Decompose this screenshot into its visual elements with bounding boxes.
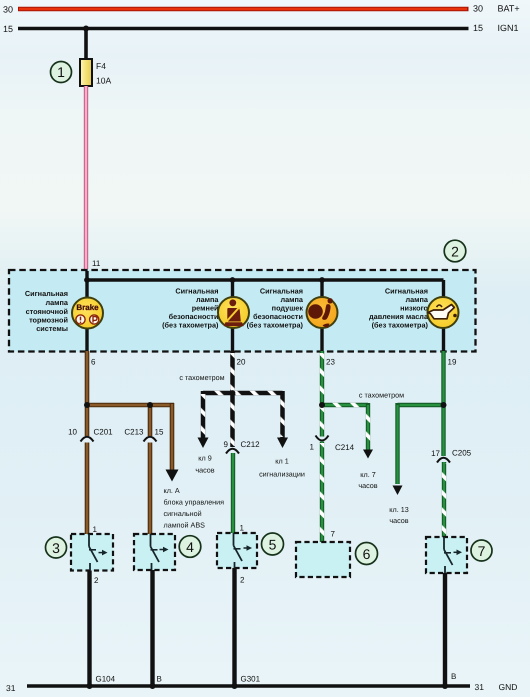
wire: switch 7 to ground rail xyxy=(443,573,447,686)
wire: striped stub to alarm terminal 1 xyxy=(280,391,285,438)
ground rail 31 xyxy=(27,684,470,688)
instrument cluster box (dashed) xyxy=(9,270,476,352)
svg-text:кл. 7: кл. 7 xyxy=(360,470,375,479)
label F4 10A xyxy=(96,61,111,86)
arrow to clock terminal 9 xyxy=(198,438,209,449)
svg-text:5: 5 xyxy=(269,537,277,553)
svg-text:17: 17 xyxy=(431,449,440,458)
node: B ground splice xyxy=(150,683,156,689)
svg-text:1: 1 xyxy=(93,525,98,534)
wire: bus 15 down to fuse F4 xyxy=(84,29,88,61)
bus 30 BAT+ wire xyxy=(18,7,469,12)
svg-text:6: 6 xyxy=(91,358,96,367)
svg-text:23: 23 xyxy=(326,358,335,367)
wire: brown stub to ABS module xyxy=(170,403,175,470)
svg-text:Brake: Brake xyxy=(76,303,99,312)
node on internal bus at airbag lamp xyxy=(319,277,325,283)
svg-text:(без тахометра): (без тахометра) xyxy=(247,321,304,330)
node: G301 ground xyxy=(232,683,238,689)
svg-text:Сигнальная: Сигнальная xyxy=(25,289,68,298)
wire: green stub to clock terminal 13 xyxy=(395,403,399,484)
callout circle 4 xyxy=(179,536,201,558)
callout circle 1 xyxy=(51,62,72,83)
svg-text:часов: часов xyxy=(358,481,377,490)
switch 5: seat belt switch box xyxy=(217,533,257,568)
svg-text:31: 31 xyxy=(6,683,16,693)
svg-text:лампой ABS: лампой ABS xyxy=(164,521,206,530)
svg-text:9: 9 xyxy=(224,440,229,449)
svg-text:C205: C205 xyxy=(452,449,472,458)
wire: brown wire from pin 6 down to switch 3 xyxy=(85,351,90,534)
svg-text:7: 7 xyxy=(478,543,486,559)
connector C213 xyxy=(148,436,153,443)
callout circle 7 xyxy=(471,540,492,561)
svg-text:7: 7 xyxy=(331,530,336,539)
lamp: airbag warning lamp xyxy=(307,297,338,328)
svg-text:сигнализации: сигнализации xyxy=(259,470,305,479)
label: parking brake lamp text xyxy=(25,289,69,333)
lamp: seat belt warning lamp xyxy=(218,297,249,328)
connector C205 xyxy=(437,458,450,463)
wire: green striped branch horizontal xyxy=(322,403,368,407)
svg-text:системы: системы xyxy=(36,324,68,333)
svg-text:(без тахометра): (без тахометра) xyxy=(372,321,429,330)
svg-text:C212: C212 xyxy=(241,440,261,449)
svg-text:GND: GND xyxy=(499,682,518,692)
svg-text:30: 30 xyxy=(473,4,483,14)
node: striped cross junction xyxy=(230,390,236,396)
svg-text:G301: G301 xyxy=(241,675,261,684)
switch 4: brake fluid level switch box xyxy=(134,534,175,570)
wire: striped branch horizontal (with tach) xyxy=(203,391,283,396)
wire: green branch horizontal xyxy=(398,403,444,407)
label: кл. 1 сигнализации xyxy=(259,457,305,479)
wire: switch 4 to ground rail xyxy=(150,570,154,686)
wire: green striped from C205 to switch 7 xyxy=(442,462,446,537)
wire: pink wire from fuse to cluster pin 11 xyxy=(84,86,88,269)
wire: cluster internal bus xyxy=(87,278,444,281)
label 15 IGN1 (right of bus 15) xyxy=(473,23,519,33)
wire: airbag lamp vertical xyxy=(320,280,323,351)
node: green striped tee xyxy=(319,402,325,408)
svg-text:15: 15 xyxy=(473,23,483,33)
svg-text:кл 1: кл 1 xyxy=(275,457,288,466)
label: кл. А блока управления сигнальной лампой ABS xyxy=(164,486,225,530)
svg-text:2: 2 xyxy=(94,576,99,585)
svg-text:B: B xyxy=(157,675,162,684)
svg-text:C213: C213 xyxy=(124,428,144,437)
node: green tee at pin 19 wire xyxy=(441,402,447,408)
wire: switch 5 to ground rail xyxy=(232,568,236,686)
svg-text:1: 1 xyxy=(57,64,65,80)
connector C212 xyxy=(226,449,239,454)
switch 3: park brake switch box xyxy=(71,534,113,571)
callout circle 2 xyxy=(444,240,466,262)
svg-text:IGN1: IGN1 xyxy=(498,23,519,33)
label: кл. 13 часов xyxy=(389,505,409,525)
bus 15 IGN1 wire xyxy=(18,27,469,31)
svg-text:10A: 10A xyxy=(96,76,111,86)
lamp: parking brake warning lamp xyxy=(72,298,103,329)
node: B ground splice right xyxy=(442,683,448,689)
arrow to alarm terminal 1 xyxy=(277,438,288,449)
svg-text:1: 1 xyxy=(310,443,315,452)
arrow to ABS control module xyxy=(166,470,179,482)
svg-text:часов: часов xyxy=(389,516,408,525)
arrow to clock terminal 7 xyxy=(363,450,373,459)
callout circle 6 xyxy=(356,543,378,565)
wire: green striped stub to clock terminal 7 xyxy=(366,403,370,450)
wire: brown drop to C213 / switch 4 xyxy=(148,405,153,534)
lamp: low oil pressure warning lamp xyxy=(428,297,459,328)
svg-text:19: 19 xyxy=(448,358,457,367)
svg-text:C214: C214 xyxy=(335,443,355,452)
svg-text:кл. 13: кл. 13 xyxy=(389,505,408,514)
svg-text:2: 2 xyxy=(240,576,245,585)
svg-text:кл. А: кл. А xyxy=(164,486,180,495)
wire: brake lamp vertical xyxy=(85,271,88,351)
callout circle 5 xyxy=(262,533,284,555)
svg-text:кл 9: кл 9 xyxy=(198,454,211,463)
arrow to clock terminal 13 xyxy=(393,486,403,496)
switch 7: oil pressure switch box xyxy=(426,537,467,573)
wire: oil lamp vertical xyxy=(442,280,445,351)
svg-text:20: 20 xyxy=(237,358,246,367)
connector C201 xyxy=(85,436,90,443)
label: seat belt lamp text xyxy=(162,287,219,330)
svg-text:15: 15 xyxy=(3,24,13,34)
svg-text:с тахометром: с тахометром xyxy=(359,391,404,400)
svg-text:лампа: лампа xyxy=(45,298,68,307)
svg-text:30: 30 xyxy=(3,5,13,15)
connector C214 xyxy=(316,436,329,441)
svg-text:BAT+: BAT+ xyxy=(498,4,520,14)
label 31 GND xyxy=(475,682,518,692)
svg-text:1: 1 xyxy=(240,524,245,533)
label: airbag lamp text xyxy=(247,287,304,330)
wire: green/white striped from pin 23 to C214 xyxy=(320,351,324,437)
wire: brown branch horizontal xyxy=(87,403,174,408)
label: кл. 7 часов xyxy=(358,470,377,490)
svg-text:часов: часов xyxy=(195,466,214,475)
svg-text:11: 11 xyxy=(92,259,101,268)
node: junction of fuse feed on bus 15 xyxy=(83,26,89,32)
label 30 BAT+ (right of bus 30) xyxy=(473,4,520,14)
wire: green wire from C212 to switch 5 xyxy=(231,453,235,533)
wire: switch 3 to ground rail xyxy=(87,571,91,687)
wire: seatbelt lamp vertical xyxy=(231,280,234,351)
node: brown tee at C213 wire xyxy=(147,402,153,408)
wire: black/white striped from pin 20 to C212 xyxy=(230,351,235,447)
node: G104 ground xyxy=(87,683,93,689)
fuse F4 10A xyxy=(80,59,92,86)
node on internal bus at brake lamp xyxy=(84,277,90,283)
label: oil pressure lamp text xyxy=(369,287,429,330)
svg-text:15: 15 xyxy=(155,428,164,437)
svg-text:с тахометром: с тахометром xyxy=(179,373,224,382)
component 6: seat belt tension reducer box xyxy=(296,542,350,577)
svg-text:(без тахометра): (без тахометра) xyxy=(162,321,219,330)
svg-text:6: 6 xyxy=(363,546,371,562)
svg-text:3: 3 xyxy=(52,540,60,556)
svg-text:блока управления: блока управления xyxy=(164,498,225,507)
svg-text:C201: C201 xyxy=(94,428,114,437)
svg-text:31: 31 xyxy=(475,682,485,692)
node: brown tee at C201 wire xyxy=(84,402,90,408)
wire: green/white striped from C214 to component 6 xyxy=(320,442,324,543)
svg-text:G104: G104 xyxy=(96,675,116,684)
label: кл. 9 часов xyxy=(195,454,214,475)
svg-text:сигнальной: сигнальной xyxy=(164,509,202,518)
svg-text:B: B xyxy=(451,672,456,681)
wire: green wire from pin 19 to C205 xyxy=(441,351,445,456)
node on internal bus at seatbelt lamp xyxy=(230,277,236,283)
svg-text:F4: F4 xyxy=(96,61,106,71)
svg-text:2: 2 xyxy=(451,244,459,260)
wire: striped stub to clock terminal 9 xyxy=(201,391,206,438)
callout circle 3 xyxy=(46,537,67,558)
svg-text:10: 10 xyxy=(68,428,77,437)
svg-text:4: 4 xyxy=(186,539,194,555)
